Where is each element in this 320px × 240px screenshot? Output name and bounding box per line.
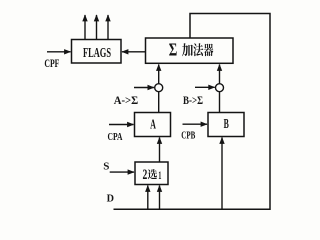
- svg-text:CPF: CPF: [44, 56, 59, 70]
- svg-text:B->Σ: B->Σ: [183, 93, 203, 107]
- svg-text:D: D: [107, 194, 114, 205]
- svg-text:FLAGS: FLAGS: [83, 46, 111, 61]
- svg-text:2: 2: [143, 167, 148, 183]
- svg-text:A: A: [150, 116, 156, 131]
- svg-text:S: S: [103, 161, 109, 173]
- svg-text:CPA: CPA: [108, 131, 123, 143]
- svg-text:1: 1: [158, 168, 161, 182]
- svg-text:Σ: Σ: [169, 40, 178, 60]
- svg-text:B: B: [224, 116, 229, 131]
- svg-text:A->Σ: A->Σ: [114, 93, 139, 107]
- svg-text:CPB: CPB: [181, 131, 195, 142]
